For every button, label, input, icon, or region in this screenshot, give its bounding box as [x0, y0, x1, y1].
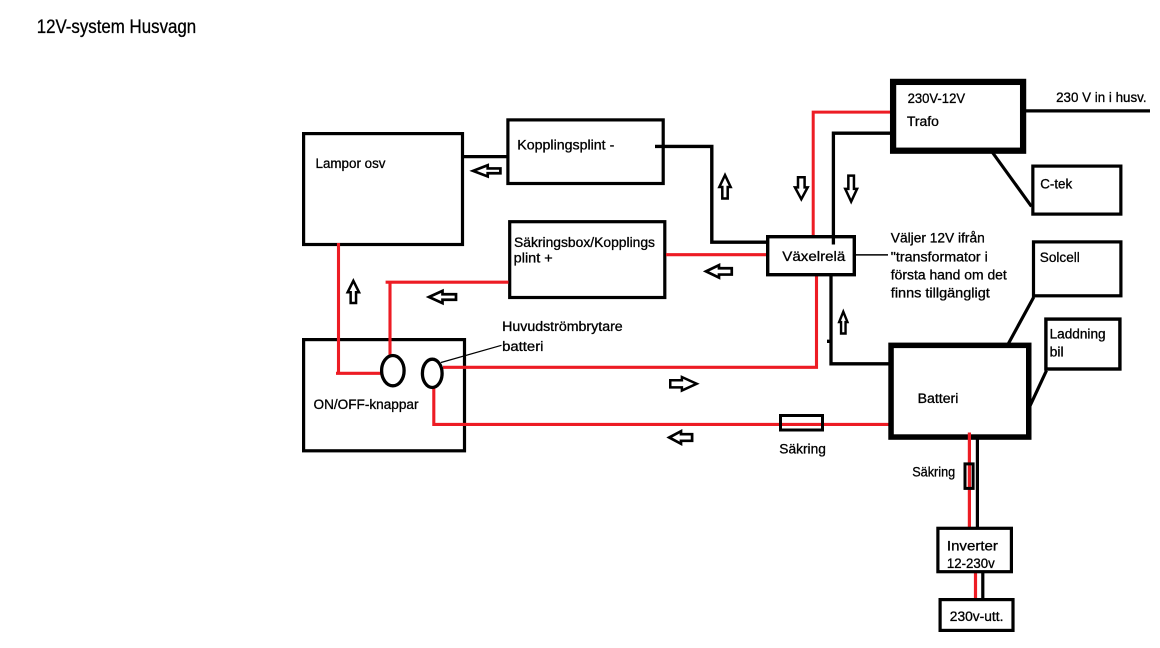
svg-text:Trafo: Trafo: [907, 114, 939, 129]
svg-text:Säkring: Säkring: [779, 442, 826, 457]
svg-text:bil: bil: [1050, 344, 1064, 359]
svg-text:Säkringsbox/Kopplings: Säkringsbox/Kopplings: [514, 235, 655, 250]
arrow: right hollow arrow on red wire ON/OFF to Växelrelä: [670, 377, 696, 391]
svg-text:Inverter: Inverter: [947, 538, 999, 553]
wire: red from Säkringsbox right edge to Växelrelä left edge: [666, 253, 767, 256]
svg-text:plint +: plint +: [514, 251, 553, 266]
box: Växelrelä relay (drawn over red wire): [768, 237, 855, 275]
box: Kopplingsplint -: [508, 120, 663, 184]
svg-text:12V-system Husvagn: 12V-system Husvagn: [37, 17, 197, 38]
wire: red from Lampor osv bottom down then right to switch button 1 left: [336, 243, 384, 373]
wire: red from Inverter bottom to 230v-utt. top: [974, 573, 977, 600]
svg-text:C-tek: C-tek: [1040, 177, 1072, 192]
svg-text:Huvudströmbrytare: Huvudströmbrytare: [502, 319, 623, 334]
arrow: down hollow arrow on black wire above Växelrelä: [845, 176, 857, 202]
fuse F2: Säkring (vertical, outline over red wire): [965, 464, 973, 489]
svg-text:Lampor osv: Lampor osv: [316, 156, 386, 171]
svg-text:Väljer 12V ifrån: Väljer 12V ifrån: [891, 231, 985, 246]
svg-text:första hand om det: första hand om det: [891, 268, 1007, 283]
switch button 1 (ellipse) on ON/OFF-knappar: [382, 356, 405, 386]
wire: black from 230V-12V Trafo right edge to 230 V in i husv.: [1025, 109, 1150, 112]
wire: red from Säkringsbox left edge going left then down to switch button 1 top: [386, 281, 509, 356]
arrow: left hollow arrow on red wire Säkringsbox to ON/OFF: [429, 291, 456, 303]
svg-text:Solcell: Solcell: [1040, 250, 1080, 265]
svg-text:Säkring: Säkring: [912, 465, 955, 480]
arrow: up hollow arrow below Kopplingsplint- wire: [719, 175, 730, 198]
wire: black from Batteri bottom to Inverter top: [976, 440, 979, 529]
arrow: left hollow arrow on red wire Säkringsbox to Växelrelä: [706, 265, 732, 278]
svg-text:Kopplingsplint -: Kopplingsplint -: [517, 138, 614, 153]
box: ON/OFF-knappar: [304, 340, 465, 451]
svg-text:230v-utt.: 230v-utt.: [950, 609, 1004, 624]
svg-text:batteri: batteri: [502, 339, 543, 354]
box: 230v-utt.: [940, 600, 1013, 631]
box: 230V-12V Trafo (thick border): [893, 82, 1023, 151]
wire: black diagonal from Trafo bottom to C-tek left edge: [993, 153, 1032, 207]
svg-text:230 V in i husv.: 230 V in i husv.: [1056, 90, 1147, 105]
label: Väljer 12V ifrån "transformator i första hand om det finns tillgängligt: [891, 231, 1007, 301]
svg-text:12-230v: 12-230v: [947, 556, 995, 571]
wire: red from 230V-12V Trafo left edge, left then down to Växelrelä top edge: [813, 112, 892, 236]
wire: red from Batteri bottom (over border) through vertical fuse to Inverter top: [968, 433, 971, 529]
box: Solcell: [1034, 242, 1121, 296]
arrow: up hollow arrow on black wire Växelrelä to Batteri: [839, 312, 847, 334]
svg-text:Växelrelä: Växelrelä: [782, 249, 846, 264]
box: Inverter 12-230v: [938, 528, 1012, 571]
arrow: up hollow arrow on red wire from Lampor osv: [348, 281, 359, 303]
wire: black from Växelrelä bottom down then right to Batteri left edge: [827, 275, 890, 364]
box: C-tek: [1033, 166, 1121, 214]
box: Säkringsbox/Kopplings plint +: [510, 222, 665, 298]
arrow: left hollow arrow between Lampor osv and Kopplingsplint-: [473, 165, 500, 176]
svg-text:finns tillgängligt: finns tillgängligt: [891, 286, 990, 301]
box: Batteri (thick border): [891, 345, 1029, 437]
wire: black diagonal from Solcell bottom-left corner to Batteri top edge: [1006, 297, 1034, 348]
wire: black from Lampor osv right edge to Kopplingsplint- left edge: [463, 155, 509, 158]
svg-text:Batteri: Batteri: [918, 391, 959, 406]
box: Lampor osv: [304, 134, 463, 245]
wire: red from Växelrelä bottom down then left to switch button 2 right: [443, 276, 817, 368]
wire: red from switch button 2 bottom, down then right through fuse to Batteri left edge: [434, 387, 890, 424]
svg-text:Laddning: Laddning: [1050, 327, 1106, 342]
svg-text:ON/OFF-knappar: ON/OFF-knappar: [314, 397, 420, 412]
svg-text:230V-12V: 230V-12V: [908, 91, 966, 106]
arrow: left hollow arrow on red wire through fuse F1: [669, 431, 692, 444]
svg-text:"transformator i: "transformator i: [891, 249, 988, 264]
wire: black stub from Trafo left edge down into Växelrelä top: [833, 133, 891, 244]
fuse F1: Säkring (horizontal, outline over red wire): [781, 416, 823, 431]
wire: thin black callout line from Växelrelä right edge to Väljer text: [855, 254, 888, 256]
label: Huvudströmbrytare batteri: [502, 319, 623, 354]
arrow: down hollow arrow on red wire above Växelrelä: [795, 177, 808, 199]
box: Laddning bil: [1046, 319, 1120, 369]
wire: black diagonal from Laddning bil bottom-left corner to Batteri right edge: [1030, 371, 1047, 408]
wire: black from inside Kopplingsplint- right side, right then down then right to Växelrelä left edge: [655, 146, 767, 242]
wire: black from Inverter bottom to 230v-utt. top: [981, 573, 984, 600]
switch button 2 (ellipse) on ON/OFF-knappar: [422, 359, 442, 387]
wire: thin black callout line from switch button 2 to Huvudströmbrytare batteri text: [441, 345, 502, 362]
